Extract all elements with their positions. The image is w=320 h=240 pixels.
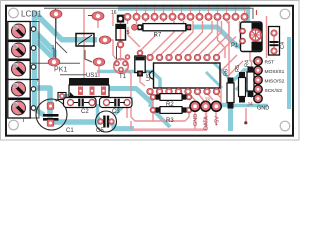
wire IC right diagonals	[206, 72, 222, 88]
svg-text:R4: R4	[245, 60, 251, 67]
diode D1 small box	[58, 93, 66, 100]
svg-text:J3: J3	[204, 98, 210, 104]
regulator US1	[69, 78, 109, 97]
silk tick bottom-left	[23, 119, 25, 123]
IC US2	[150, 63, 221, 88]
wire R2R3 left pads	[152, 99, 154, 108]
svg-text:PK1: PK1	[54, 67, 67, 74]
screw head	[250, 29, 261, 40]
wire lower terminal to C1	[33, 88, 101, 122]
resistor R2	[150, 94, 192, 101]
LCD pad E	[93, 58, 105, 66]
pin 4	[31, 87, 36, 92]
svg-text:+: +	[36, 78, 40, 84]
wire terminal pin column	[32, 11, 38, 110]
wire fan extras left	[128, 27, 140, 47]
wire IC bottom diagonals	[188, 93, 195, 100]
wire ISP column	[251, 62, 253, 98]
svg-text:R6: R6	[224, 69, 230, 76]
terminal block lower	[8, 78, 40, 118]
svg-text:SCK/S3: SCK/S3	[265, 88, 283, 94]
screw 3	[12, 62, 26, 76]
screw 1	[12, 24, 26, 38]
wire diagonal 1 to jumper	[34, 12, 97, 40]
screw 5	[12, 101, 26, 115]
svg-text:5: 5	[127, 30, 130, 36]
wire right of C4	[266, 16, 268, 58]
wire ISP SCK	[240, 89, 256, 97]
LCD pad D	[48, 58, 60, 66]
LCD pad C	[99, 36, 111, 44]
trimmer P1	[240, 22, 262, 52]
wire RST feed	[250, 48, 253, 61]
silk L-line to pad E	[85, 50, 92, 62]
wire pad E stub	[98, 66, 100, 77]
screw 4	[12, 82, 26, 96]
outer frame line	[1, 1, 300, 141]
LCD1 module outline	[30, 8, 253, 74]
svg-text:R7: R7	[154, 33, 162, 39]
wire J3 +5V stub	[216, 103, 229, 107]
LCD pad B	[92, 12, 104, 20]
svg-text:T1: T1	[119, 74, 127, 80]
wire right vertical	[287, 37, 291, 109]
wire R1 bottom stub	[140, 76, 145, 86]
pin 2	[31, 46, 36, 51]
wire D5 vertical	[120, 19, 122, 45]
header pads row	[124, 13, 248, 20]
silk line from pad A	[55, 18, 57, 36]
wire from pad row left	[112, 14, 114, 26]
pin 1	[31, 27, 36, 32]
wire US1 pad stub	[78, 95, 82, 101]
screw 2	[12, 43, 26, 57]
junction dot	[244, 121, 247, 124]
wire diagonal 2	[33, 30, 54, 59]
wire US1 upper horizontal	[97, 72, 160, 89]
svg-text:C2: C2	[81, 109, 89, 115]
svg-text:16: 16	[111, 10, 117, 16]
IC pads top	[147, 54, 220, 61]
wire under US1	[60, 89, 151, 108]
svg-text:LCD1: LCD1	[21, 10, 42, 19]
header J3	[190, 101, 221, 111]
silk line near T1	[116, 46, 118, 60]
resistor R3	[150, 107, 192, 114]
wire T1 long vertical to bottom	[126, 69, 190, 122]
LCD pad A	[50, 10, 62, 18]
svg-text:GND: GND	[257, 106, 269, 112]
mounting hole top-left	[9, 8, 19, 18]
silk tick right of header	[256, 10, 258, 15]
wire near J4	[245, 108, 247, 122]
wire D5 to T1	[120, 45, 122, 61]
svg-text:C5: C5	[96, 128, 104, 134]
mounting hole top-right	[280, 9, 290, 19]
capacitor C1 electrolytic	[36, 99, 67, 131]
IC pads bottom	[147, 88, 220, 95]
svg-text:DATA: DATA	[204, 116, 210, 130]
wire fan stubs from LCD pads	[127, 13, 129, 24]
resistor R5 vertical	[239, 72, 246, 103]
resistor R6 vertical	[227, 78, 234, 109]
svg-text:+: +	[55, 99, 58, 105]
wire diagonal 3	[35, 40, 52, 57]
svg-text:MOSI/S1: MOSI/S1	[265, 69, 285, 75]
resistor R4 vertical	[247, 67, 254, 98]
resistor R1 vertical	[135, 50, 145, 76]
wire ISP MOSI	[232, 70, 256, 82]
wire top stubs into cyan band	[137, 5, 245, 14]
pin 5	[31, 106, 36, 111]
wire ISP MISO	[236, 80, 256, 90]
silk line left of pad B	[88, 15, 92, 17]
svg-text:P1: P1	[231, 43, 239, 49]
pin 3	[31, 65, 36, 70]
wire fan diagonals LCD to IC	[150, 21, 174, 56]
wire between C2 C3 down to C5	[98, 104, 102, 121]
capacitor C2 axial	[64, 98, 97, 108]
svg-text:GND: GND	[193, 114, 199, 126]
header J4 ISP pads	[254, 57, 262, 103]
wire C3 right down	[126, 106, 128, 118]
svg-text:R5: R5	[235, 65, 241, 72]
svg-text:MISO/S2: MISO/S2	[265, 79, 285, 85]
svg-text:US1: US1	[86, 73, 98, 79]
wire C4 vertical	[273, 30, 275, 54]
jumper box	[76, 34, 94, 47]
silk line to pad D	[53, 49, 55, 57]
wire IC lower-left diagonal	[151, 108, 170, 127]
wire bottom band	[134, 112, 206, 130]
mounting hole bottom-right	[280, 121, 290, 131]
svg-text:C4: C4	[280, 42, 286, 49]
wire P_c down	[110, 40, 116, 59]
terminal block PK1 upper	[8, 22, 39, 80]
wire bottom connect	[130, 121, 132, 130]
svg-text:C1: C1	[66, 128, 74, 134]
svg-text:RST: RST	[265, 60, 275, 66]
svg-text:+5V: +5V	[214, 116, 220, 126]
header pin1 pad (black)	[117, 15, 124, 23]
capacitor C5 disc	[96, 111, 117, 132]
wire top cyan bus	[118, 9, 248, 26]
wire GND row	[218, 104, 268, 108]
capacitor C4	[269, 27, 280, 56]
svg-text:R3: R3	[166, 118, 174, 124]
wire C5 to bottom band	[110, 121, 134, 129]
wire vertical through jumper	[83, 9, 85, 63]
diode D5	[116, 25, 126, 48]
wire C3 to C5 diagonal	[115, 97, 132, 114]
via	[125, 55, 130, 60]
svg-text:J4: J4	[247, 102, 253, 108]
wire right pads down to P1	[218, 21, 226, 58]
wire pin to C1 diagonal	[33, 108, 44, 115]
wire J3 right vertical	[228, 104, 233, 131]
transistor T1	[114, 59, 128, 73]
mounting hole bottom-left	[9, 120, 19, 130]
wire pad B stub	[97, 20, 99, 28]
capacitor C3 axial	[100, 98, 133, 108]
wire R7 to P1	[193, 27, 246, 46]
wire J3 pad drops	[194, 112, 196, 129]
wire US1 feed	[83, 63, 85, 78]
resistor R7	[132, 24, 192, 31]
svg-text:US2: US2	[146, 70, 152, 81]
